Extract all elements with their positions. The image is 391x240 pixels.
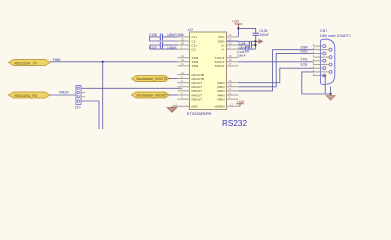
pin R1IN [227,82,239,84]
capacitor C137 loop C2+/C2- [149,42,178,50]
pin T3OUT [227,65,239,67]
svg-text:28: 28 [181,41,184,45]
wire PA9 port to T2IN [50,61,178,63]
pin nEN [172,105,190,107]
ground arrow DB9 [326,94,335,100]
pin T3IN [178,65,190,67]
svg-text:R5OUT: R5OUT [192,97,203,101]
svg-text:20: 20 [229,83,232,87]
wire DSR R3IN to DB9 pin6 [238,50,313,91]
svg-text:26: 26 [229,33,232,37]
capacitor C136 loop C1+/C1- [149,33,184,41]
svg-text:100nF: 100nF [260,33,269,37]
svg-text:+UD: +UD [232,20,240,24]
svg-text:CN7: CN7 [320,29,327,33]
junction VCC branch [237,27,239,29]
svg-text:R5IN: R5IN [217,97,224,101]
svg-text:ST3243EBPR: ST3243EBPR [187,111,212,116]
wire DB9 pin5 gnd drop [323,76,325,94]
svg-text:100nF/16V: 100nF/16V [167,33,184,37]
junction gnd loop [330,93,332,95]
svg-text:PA9: PA9 [53,57,61,62]
pins left [172,37,190,106]
svg-text:25: 25 [181,37,184,41]
pin names right [214,35,225,108]
svg-text:10: 10 [181,71,184,75]
pins right [227,37,241,106]
power +UD bottom (nSHDN) [236,100,244,106]
svg-text:RS232EA_RX: RS232EA_RX [15,94,38,98]
svg-text:22: 22 [229,91,232,95]
wire BOOT0 to R2OUTB [169,78,178,80]
svg-text:Bootloader_RESET: Bootloader_RESET [137,94,168,98]
pin R5IN [227,98,239,100]
pin C2- [178,48,190,50]
pin R2OUT [178,86,190,88]
wire RESET to R4OUT [169,94,178,96]
wire header pin1 to IC R2OUT [81,87,181,89]
port Bootloader_BOOT0 [132,76,170,82]
ground arrow right [257,40,263,44]
svg-text:100nF: 100nF [237,54,246,58]
pin T2IN [178,61,190,63]
svg-text:12: 12 [230,103,233,107]
svg-text:nEN: nEN [192,105,198,109]
pin C1- [178,40,190,42]
capacitor C134 on V+ [238,41,257,49]
pin C1+ [178,36,190,38]
wire GND row rail [237,40,257,42]
pin T1IN [178,57,190,59]
power +UD top [232,20,243,29]
DB9 CN7 [320,29,351,84]
pin V+ [227,44,239,46]
junction PA9 [102,61,104,63]
svg-text:23: 23 [229,41,232,45]
svg-text:TXD: TXD [301,58,308,62]
svg-text:17: 17 [229,62,232,66]
pin T1OUT [227,57,239,59]
wire header pin3 down [81,101,99,129]
pin numbers [174,33,233,106]
svg-text:T3IN: T3IN [192,64,199,68]
wire branch to C133 [238,28,255,33]
DB9 pin stubs [314,44,330,75]
svg-text:19: 19 [229,79,232,83]
pin nSHDN [227,105,241,107]
svg-text:RS232: RS232 [222,119,247,128]
svg-text:RS232EA_TX: RS232EA_TX [15,61,38,65]
IC U1 body [190,32,227,110]
wire DTR R1IN to DB9 pin4 [238,68,313,83]
svg-text:C137: C137 [149,46,157,50]
pin R4IN [227,94,239,96]
port Bootloader_RESET [132,92,170,98]
svg-text:U?: U? [188,27,194,32]
wire VCC to +UD [237,28,239,37]
pin R2OUTB [178,78,190,80]
svg-text:DTR: DTR [301,63,309,67]
wire PA9 vertical down [102,62,104,129]
svg-text:27: 27 [229,37,232,41]
pin R5OUT [178,98,190,100]
wire shield drop [330,87,332,95]
wire DB9 pin9 gnd loop [302,72,331,94]
ground nEN arrow [167,106,177,112]
pin R1OUT [178,82,190,84]
DB9 pin circles left column [323,45,326,48]
pin R4OUT [178,94,190,96]
junction GND rail [254,40,256,42]
pin C2+ [178,44,190,46]
svg-text:C136: C136 [149,33,157,37]
svg-text:DB9 male USART1: DB9 male USART1 [320,34,351,38]
svg-text:14: 14 [181,54,184,58]
pin VCC [227,36,239,38]
port RS232EA_RX [9,92,51,98]
capacitor C135 on V- [237,46,256,58]
svg-text:21: 21 [229,87,232,91]
header pin circles [77,87,79,89]
svg-text:RXD: RXD [301,49,309,53]
pin V- [227,48,239,50]
pin GND [227,40,239,42]
wire PA10 port to header [50,94,76,96]
pin R3OUT [178,90,190,92]
svg-text:V-: V- [222,47,225,51]
svg-text:C2-: C2- [192,47,197,51]
svg-text:nSHDN: nSHDN [214,105,225,109]
wire RXD R2IN to DB9 pin2 [238,53,313,86]
svg-text:T3OUT: T3OUT [214,64,224,68]
svg-text:Bootloader_BOOT0: Bootloader_BOOT0 [137,77,168,81]
pin R2IN [227,86,239,88]
svg-text:TP?: TP? [75,106,81,110]
svg-text:PA10: PA10 [59,89,69,94]
DB9 shell [320,39,334,84]
pin R1OUTB [178,74,190,76]
pin T2OUT [227,61,239,63]
capacitor C133 [253,29,269,41]
svg-text:15: 15 [229,54,232,58]
pin R3IN [227,90,239,92]
svg-text:12: 12 [174,103,177,107]
svg-text:+UD: +UD [237,100,245,104]
svg-text:13: 13 [181,58,184,62]
header CN8 body [75,86,86,111]
port RS232EA_TX [9,60,51,66]
pin names left [192,35,205,108]
svg-text:16: 16 [229,58,232,62]
wire TXD T2OUT to DB9 pin3 [238,61,313,63]
svg-text:100nF: 100nF [167,46,176,50]
DB9 pin circles right column [329,48,332,51]
